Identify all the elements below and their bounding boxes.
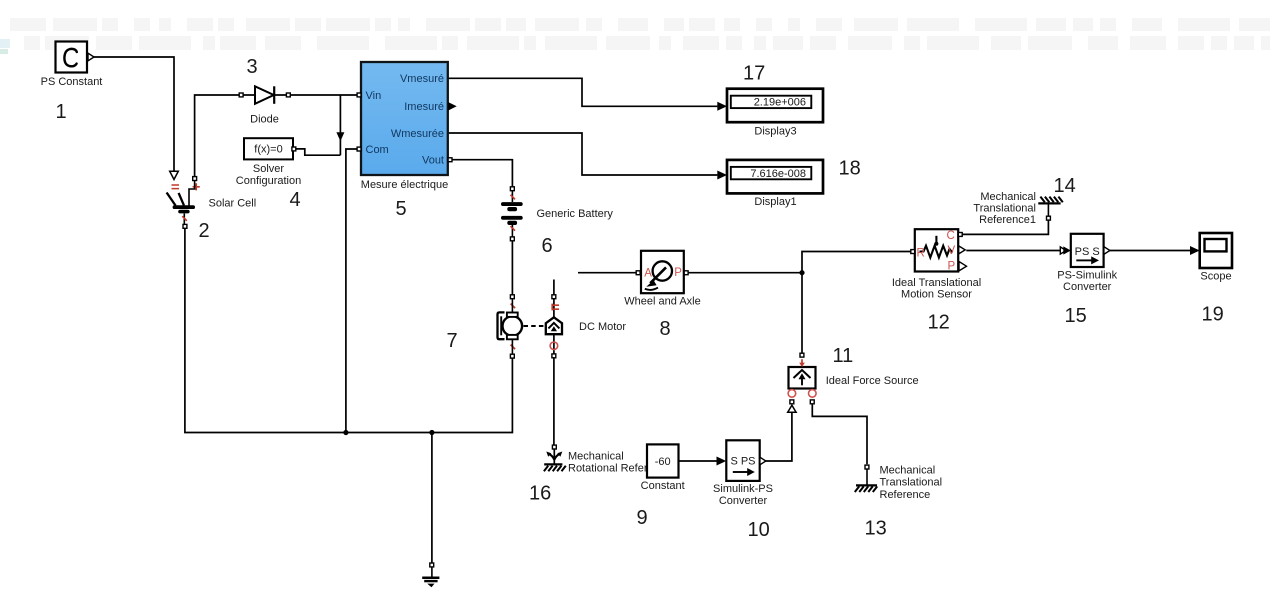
- svg-text:Imesuré: Imesuré: [404, 101, 444, 113]
- svg-text:10: 10: [748, 519, 770, 541]
- svg-text:Solver: Solver: [253, 163, 285, 175]
- svg-text:9: 9: [637, 507, 648, 529]
- svg-text:PS S: PS S: [1075, 246, 1100, 258]
- svg-text:Solar Cell: Solar Cell: [209, 198, 257, 210]
- svg-text:A: A: [644, 268, 652, 280]
- svg-text:Diode: Diode: [250, 114, 279, 126]
- svg-text:Converter: Converter: [719, 495, 768, 507]
- svg-text:19: 19: [1202, 304, 1224, 326]
- svg-text:Ideal Force Source: Ideal Force Source: [826, 375, 919, 387]
- svg-text:DC Motor: DC Motor: [579, 321, 626, 333]
- svg-text:C: C: [947, 230, 955, 242]
- svg-text:P: P: [948, 260, 956, 272]
- svg-text:Mechanical: Mechanical: [568, 451, 624, 463]
- svg-text:PS Constant: PS Constant: [41, 76, 103, 88]
- svg-text:R: R: [917, 248, 925, 260]
- svg-text:Mechanical: Mechanical: [880, 464, 936, 476]
- svg-text:2.19e+006: 2.19e+006: [754, 97, 806, 109]
- svg-text:Scope: Scope: [1200, 271, 1231, 283]
- svg-text:Ideal Translational: Ideal Translational: [892, 277, 981, 289]
- svg-text:Motion Sensor: Motion Sensor: [901, 288, 972, 300]
- svg-text:P: P: [674, 267, 682, 279]
- svg-text:12: 12: [928, 312, 950, 334]
- svg-text:Com: Com: [366, 144, 389, 156]
- svg-text:Translational: Translational: [973, 203, 1036, 215]
- svg-text:S PS: S PS: [730, 456, 755, 468]
- svg-text:-60: -60: [655, 456, 671, 468]
- svg-text:8: 8: [660, 318, 671, 340]
- svg-text:7.616e-008: 7.616e-008: [750, 168, 806, 180]
- svg-text:2: 2: [199, 220, 210, 242]
- svg-text:Vin: Vin: [366, 90, 382, 102]
- svg-text:Display1: Display1: [754, 196, 796, 208]
- svg-text:f(x)=0: f(x)=0: [254, 144, 282, 156]
- svg-text:PS-Simulink: PS-Simulink: [1057, 269, 1117, 281]
- svg-text:Display3: Display3: [754, 125, 796, 137]
- svg-text:15: 15: [1065, 305, 1087, 327]
- svg-text:5: 5: [396, 198, 407, 220]
- svg-text:Vmesuré: Vmesuré: [400, 73, 444, 85]
- svg-text:16: 16: [529, 483, 551, 505]
- svg-text:Simulink-PS: Simulink-PS: [713, 483, 773, 495]
- svg-text:Mesure électrique: Mesure électrique: [361, 179, 448, 191]
- svg-text:V: V: [948, 245, 956, 257]
- svg-text:3: 3: [247, 56, 258, 78]
- svg-text:Constant: Constant: [641, 480, 685, 492]
- svg-text:17: 17: [743, 63, 765, 85]
- svg-text:13: 13: [865, 518, 887, 540]
- svg-text:Translational: Translational: [880, 477, 943, 489]
- svg-text:Wmesurée: Wmesurée: [391, 128, 444, 140]
- svg-text:Wheel and Axle: Wheel and Axle: [624, 296, 700, 308]
- svg-text:4: 4: [290, 189, 301, 211]
- svg-text:Reference1: Reference1: [979, 214, 1036, 226]
- svg-text:Configuration: Configuration: [236, 175, 301, 187]
- svg-text:Mechanical: Mechanical: [980, 191, 1036, 203]
- svg-text:Reference: Reference: [880, 489, 931, 501]
- svg-text:Converter: Converter: [1063, 281, 1112, 293]
- svg-text:Vout: Vout: [422, 155, 444, 167]
- svg-text:11: 11: [833, 345, 854, 367]
- svg-text:14: 14: [1054, 175, 1076, 197]
- svg-text:Generic Battery: Generic Battery: [537, 208, 614, 220]
- svg-text:6: 6: [542, 235, 553, 257]
- svg-text:1: 1: [56, 101, 67, 123]
- svg-text:18: 18: [839, 158, 861, 180]
- svg-text:7: 7: [447, 330, 458, 352]
